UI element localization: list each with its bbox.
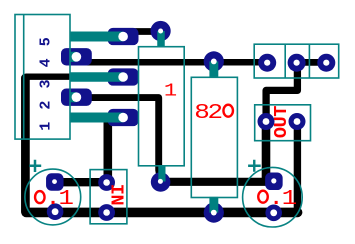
svg-text:3: 3	[37, 79, 54, 88]
svg-text:82: 82	[194, 101, 221, 125]
svg-text:4: 4	[37, 58, 54, 67]
svg-text:1: 1	[37, 122, 54, 131]
svg-text:5: 5	[37, 37, 54, 46]
svg-text:2: 2	[37, 101, 54, 110]
svg-text:OUT: OUT	[271, 106, 292, 139]
svg-text:1: 1	[164, 81, 177, 102]
svg-text:IN: IN	[105, 184, 126, 206]
